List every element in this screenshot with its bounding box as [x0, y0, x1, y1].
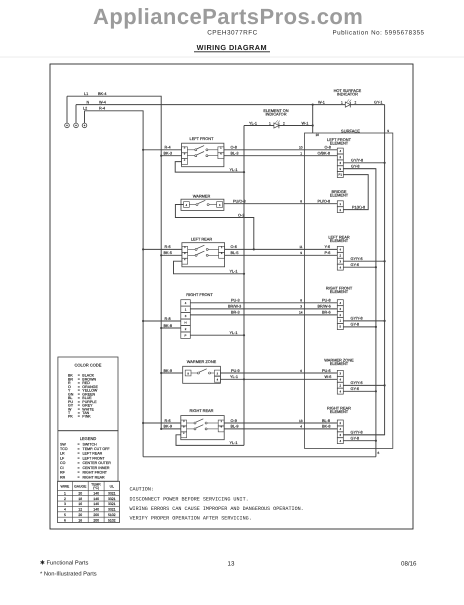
svg-text:O/BK-8: O/BK-8 — [318, 152, 330, 156]
svg-text:2: 2 — [283, 121, 285, 125]
bus GY/Y vertical — [343, 105, 384, 435]
wire GY/Y-8 right rear element to bus — [343, 434, 384, 436]
svg-text:ELEMENT: ELEMENT — [330, 193, 349, 198]
wire BL-3 left front switch to element pin 2 — [224, 155, 337, 157]
svg-text:CI: CI — [60, 466, 64, 470]
svg-text:140: 140 — [93, 502, 99, 506]
svg-text:O-8: O-8 — [325, 146, 331, 150]
svg-text:3321: 3321 — [108, 497, 116, 501]
wire PU-3 right front switch to element — [190, 302, 337, 304]
svg-text:N: N — [87, 100, 90, 104]
svg-text:ELEMENT: ELEMENT — [330, 361, 349, 366]
wire PU-9 warmer zone switch to element — [220, 372, 337, 374]
page separator line — [0, 56, 464, 58]
svg-text:RIGHT FRONT: RIGHT FRONT — [186, 292, 213, 297]
svg-text:* Non-Illustrated Parts: * Non-Illustrated Parts — [40, 571, 97, 578]
svg-text:GY-6: GY-6 — [351, 263, 360, 267]
svg-text:ELEMENT: ELEMENT — [330, 238, 349, 243]
wire GY/Y-8 left front element to bus — [343, 162, 384, 164]
svg-text:GY-8: GY-8 — [351, 165, 360, 169]
svg-text:AppliancePartsPros.com: AppliancePartsPros.com — [93, 4, 363, 29]
wire L1 BK-4 to bus BK — [67, 96, 161, 429]
svg-text:GY-8: GY-8 — [351, 437, 360, 441]
wire BK-8 right rear switch to element — [224, 428, 337, 430]
svg-text:1: 1 — [64, 492, 66, 496]
svg-text:PU-9: PU-9 — [231, 369, 240, 373]
wire BR-3 right front switch to element — [190, 314, 337, 316]
svg-text:3321: 3321 — [108, 502, 116, 506]
svg-text:P-6: P-6 — [325, 251, 331, 255]
svg-text:W-4: W-4 — [99, 100, 106, 104]
svg-text:=: = — [78, 471, 80, 475]
svg-text:YL-1: YL-1 — [230, 375, 238, 379]
svg-text:=: = — [78, 475, 80, 479]
svg-text:1: 1 — [341, 100, 343, 104]
svg-text:BR-3: BR-3 — [231, 311, 240, 315]
svg-text:4: 4 — [300, 425, 302, 429]
svg-text:UL: UL — [110, 484, 114, 488]
svg-text:11: 11 — [299, 245, 303, 249]
svg-text:2: 2 — [64, 497, 66, 501]
svg-text:Y-6: Y-6 — [325, 245, 331, 249]
svg-text:LR: LR — [60, 452, 65, 456]
svg-text:R-6: R-6 — [165, 419, 171, 423]
wire W-6 pilot bus to warmer zone element — [220, 378, 337, 380]
svg-text:=: = — [78, 452, 80, 456]
wire YL-1 right rear pilot — [176, 435, 244, 446]
svg-text:13: 13 — [228, 561, 235, 568]
svg-text:3: 3 — [300, 305, 302, 309]
svg-text:5102: 5102 — [108, 518, 116, 522]
wire R-8 bus to right front switch — [143, 320, 181, 322]
svg-text:GY-8: GY-8 — [351, 323, 360, 327]
wire YL-1 right front pilot — [190, 334, 244, 336]
svg-text:RIGHT REAR: RIGHT REAR — [83, 475, 106, 479]
svg-text:(°C): (°C) — [93, 486, 99, 490]
wire BR/W-3 right front switch to element — [190, 308, 337, 310]
svg-text:GY-6: GY-6 — [351, 387, 360, 391]
wire GY-6 warmer zone element to bus — [343, 390, 376, 392]
svg-text:RIGHT FRONT: RIGHT FRONT — [83, 471, 108, 475]
svg-text:INDICATOR: INDICATOR — [265, 112, 286, 117]
wire GY-8 left front element to bus — [343, 168, 376, 170]
svg-text:R-8: R-8 — [165, 317, 171, 321]
surface connector box — [305, 133, 393, 448]
label SURFACE — [338, 128, 364, 133]
svg-text:O-8: O-8 — [231, 146, 237, 150]
svg-text:16: 16 — [78, 518, 82, 522]
svg-text:YL-1: YL-1 — [230, 270, 238, 274]
wire GY-6 left rear element to bus — [343, 266, 376, 268]
svg-text:6: 6 — [64, 518, 66, 522]
junction at element on wire — [312, 124, 314, 126]
svg-text:WARMER ZONE: WARMER ZONE — [187, 359, 217, 364]
terminal L2 — [82, 123, 87, 128]
svg-text:LEFT FRONT: LEFT FRONT — [83, 456, 106, 460]
svg-text:SW: SW — [60, 442, 66, 446]
svg-text:O-3: O-3 — [238, 213, 244, 217]
svg-text:VERIFY PROPER OPERATION AFTER: VERIFY PROPER OPERATION AFTER SERVICING. — [130, 515, 252, 521]
svg-text:1: 1 — [300, 152, 302, 156]
svg-text:8: 8 — [300, 200, 302, 204]
svg-text:PU-3: PU-3 — [231, 299, 240, 303]
svg-text:DISCONNECT POWER BEFORE SERVIC: DISCONNECT POWER BEFORE SERVICING UNIT. — [130, 496, 249, 502]
wire YL-1 left front pilot — [175, 162, 244, 173]
svg-text:=: = — [78, 456, 80, 460]
svg-text:GY/Y-8: GY/Y-8 — [351, 317, 363, 321]
svg-text:BK-5: BK-5 — [164, 251, 172, 255]
svg-text:PU/O-3: PU/O-3 — [233, 200, 246, 204]
svg-text:PU/O-8: PU/O-8 — [318, 200, 331, 204]
svg-text:BK-3: BK-3 — [164, 152, 172, 156]
svg-text:=: = — [78, 442, 80, 446]
svg-text:GY/Y-8: GY/Y-8 — [351, 431, 363, 435]
svg-text:2: 2 — [355, 100, 357, 104]
svg-text:TCO: TCO — [60, 447, 68, 451]
terminal N — [74, 123, 79, 128]
svg-text:COLOR CODE: COLOR CODE — [75, 362, 102, 367]
svg-text:12: 12 — [78, 508, 82, 512]
svg-text:L2: L2 — [83, 107, 87, 111]
svg-text:14: 14 — [299, 311, 303, 315]
wire gauge table — [58, 481, 120, 522]
svg-text:BR/W-6: BR/W-6 — [318, 305, 331, 309]
svg-text:O-9: O-9 — [231, 419, 237, 423]
wire element on indicator YL-1 — [244, 125, 313, 127]
svg-text:GY/Y-6: GY/Y-6 — [351, 381, 363, 385]
wire PU/O-3 warmer switch to bridge element pin 1 — [224, 203, 337, 205]
svg-text:SWITCH: SWITCH — [83, 442, 98, 446]
wire O-3 warmer switch to left rear circuit — [175, 205, 253, 250]
svg-text:YL-1: YL-1 — [230, 441, 238, 445]
wire P1 loop to bridge element — [343, 175, 368, 210]
svg-text:INDICATOR: INDICATOR — [337, 91, 358, 96]
svg-text:WIRE: WIRE — [60, 484, 70, 488]
svg-text:140: 140 — [93, 492, 99, 496]
svg-text:YL-1: YL-1 — [230, 331, 238, 335]
svg-text:20: 20 — [78, 492, 82, 496]
svg-text:YL-1: YL-1 — [249, 121, 257, 125]
svg-text:Publication No: 5995678355: Publication No: 5995678355 — [333, 30, 425, 37]
wire O-8 left front switch to element pin 4 — [224, 149, 337, 151]
color code box — [58, 357, 118, 431]
wire BL-5 left rear switch to element — [225, 254, 338, 256]
svg-text:LEGEND: LEGEND — [80, 436, 97, 441]
svg-text:CENTER OUTER: CENTER OUTER — [83, 461, 112, 465]
wire BK-3 bus to left front switch — [161, 155, 181, 157]
wire GY-8 right rear element to bus — [343, 440, 376, 442]
svg-text:4: 4 — [64, 508, 66, 512]
wire R-6 bus to left rear switch — [143, 248, 182, 250]
svg-text:P: P — [185, 333, 187, 337]
svg-text:=: = — [78, 461, 80, 465]
svg-text:BK-9: BK-9 — [164, 425, 172, 429]
wire R-6 bus to right rear switch — [143, 422, 181, 424]
wire BL-8 right rear switch to element — [224, 422, 337, 424]
svg-text:200: 200 — [93, 518, 99, 522]
svg-text:BL-3: BL-3 — [231, 152, 239, 156]
junction at N wire — [312, 104, 314, 106]
svg-text:WIRING DIAGRAM: WIRING DIAGRAM — [197, 43, 267, 52]
wire GY/Y-8 right front element to bus — [343, 320, 384, 322]
svg-text:R-4: R-4 — [165, 146, 171, 150]
svg-text:18: 18 — [78, 497, 82, 501]
wire O-6 left rear switch to element — [225, 248, 338, 250]
svg-text:GAUGE: GAUGE — [74, 484, 87, 488]
svg-text:RR: RR — [60, 475, 66, 479]
svg-text:SURFACE: SURFACE — [341, 128, 360, 133]
wire W-1 drop to surface pin 10 — [312, 105, 314, 133]
svg-text:PU-8: PU-8 — [322, 299, 331, 303]
svg-text:10: 10 — [299, 146, 303, 150]
svg-text:PU-6: PU-6 — [322, 369, 331, 373]
wire N W-4 to hot surface indicator — [76, 104, 385, 106]
wire R-4 bus to left front switch — [143, 149, 182, 151]
svg-text:13: 13 — [299, 419, 303, 423]
svg-text:LEFT REAR: LEFT REAR — [191, 236, 213, 241]
svg-text:6: 6 — [300, 369, 302, 373]
svg-text:=: = — [78, 466, 80, 470]
svg-text:LEFT REAR: LEFT REAR — [83, 452, 103, 456]
svg-text:✱ Functional Parts: ✱ Functional Parts — [40, 560, 88, 567]
svg-text:YL-1: YL-1 — [230, 168, 238, 172]
svg-text:BR-6: BR-6 — [322, 311, 331, 315]
svg-text:3321: 3321 — [108, 492, 116, 496]
svg-text:ELEMENT: ELEMENT — [330, 141, 349, 146]
svg-text:O-6: O-6 — [231, 245, 237, 249]
svg-text:CO: CO — [60, 461, 66, 465]
svg-text:1: 1 — [269, 121, 271, 125]
terminal L1 — [65, 123, 70, 128]
bus GY vertical — [343, 169, 376, 457]
svg-text:8: 8 — [300, 299, 302, 303]
wire L2 R-4 to bus R — [85, 111, 144, 457]
svg-text:R-4: R-4 — [99, 107, 105, 111]
svg-text:3321: 3321 — [108, 508, 116, 512]
wire bottom return R to GY — [143, 456, 376, 458]
svg-text:R-6: R-6 — [165, 245, 171, 249]
svg-text:GY/Y-6: GY/Y-6 — [351, 257, 363, 261]
svg-text:W-1: W-1 — [302, 121, 309, 125]
svg-text:5: 5 — [64, 513, 66, 517]
svg-text:9: 9 — [300, 251, 302, 255]
svg-text:08/16: 08/16 — [401, 561, 417, 568]
wire GY/Y-6 left rear element to bus — [343, 260, 384, 262]
svg-text:=: = — [78, 447, 80, 451]
wire BK-9 bus to warmer zone switch — [161, 372, 183, 374]
svg-text:BK-9: BK-9 — [164, 369, 172, 373]
svg-text:6: 6 — [378, 451, 380, 455]
bus YL pilot vertical — [243, 126, 245, 446]
svg-text:BK-8: BK-8 — [164, 324, 172, 328]
svg-text:20: 20 — [78, 513, 82, 517]
wire GY-8 right front element to bus — [343, 326, 376, 328]
svg-text:WARMER: WARMER — [193, 193, 211, 198]
wire GY/Y-6 warmer zone element to bus — [343, 384, 384, 386]
svg-text:140: 140 — [93, 508, 99, 512]
svg-text:ELEMENT: ELEMENT — [330, 409, 349, 414]
svg-text:PK: PK — [68, 415, 73, 419]
svg-text:9: 9 — [387, 129, 389, 133]
wire BK-5 bus to left rear switch — [161, 254, 182, 256]
svg-text:140: 140 — [93, 497, 99, 501]
svg-text:PINK: PINK — [82, 415, 91, 419]
svg-text:H: H — [184, 320, 186, 324]
diagram border frame — [50, 64, 413, 529]
svg-text:BL-8: BL-8 — [322, 419, 330, 423]
svg-text:CPEH3077RFC: CPEH3077RFC — [207, 30, 258, 37]
svg-text:CENTER INNER: CENTER INNER — [83, 466, 110, 470]
svg-text:BL-5: BL-5 — [231, 251, 239, 255]
svg-text:RF: RF — [60, 471, 66, 475]
wire BK-8 bus to right front switch — [161, 327, 181, 329]
svg-text:10: 10 — [316, 133, 320, 137]
svg-text:BK-8: BK-8 — [322, 425, 330, 429]
svg-text:CAUTION:: CAUTION: — [130, 486, 154, 492]
wire BK-9 bus to right rear switch — [161, 428, 181, 430]
svg-text:W-1: W-1 — [318, 100, 325, 104]
svg-text:WIRING ERRORS CAN CAUSE IMPROP: WIRING ERRORS CAN CAUSE IMPROPER AND DAN… — [130, 506, 304, 512]
svg-text:GY-1: GY-1 — [374, 100, 383, 104]
svg-text:W-6: W-6 — [325, 375, 332, 379]
wire YL-1 left rear pilot — [174, 261, 245, 274]
svg-text:TEMP. CUT OFF: TEMP. CUT OFF — [83, 447, 111, 451]
svg-text:16: 16 — [78, 502, 82, 506]
svg-text:200: 200 — [93, 513, 99, 517]
svg-text:P1(K)-8: P1(K)-8 — [352, 205, 365, 209]
svg-text:BL-9: BL-9 — [231, 425, 239, 429]
svg-text:3: 3 — [64, 502, 66, 506]
svg-text:RIGHT REAR: RIGHT REAR — [190, 408, 214, 413]
svg-text:P1: P1 — [339, 173, 343, 177]
svg-text:GY/Y-8: GY/Y-8 — [351, 159, 363, 163]
svg-text:ELEMENT: ELEMENT — [330, 289, 349, 294]
svg-text:BK-4: BK-4 — [98, 92, 106, 96]
svg-text:BR/W-3: BR/W-3 — [228, 305, 241, 309]
svg-text:L1: L1 — [84, 92, 88, 96]
svg-text:LEFT FRONT: LEFT FRONT — [190, 136, 215, 141]
svg-text:5102: 5102 — [108, 513, 116, 517]
legend box — [58, 431, 118, 482]
svg-text:=: = — [78, 415, 80, 419]
